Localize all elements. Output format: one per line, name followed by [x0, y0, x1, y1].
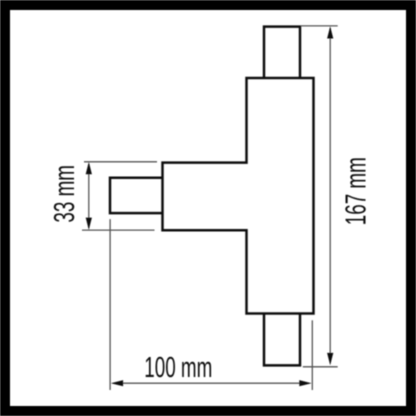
arrow down 167mm	[327, 353, 333, 365]
extension line top of 167mm	[301, 25, 338, 27]
top stub	[264, 27, 300, 79]
dimension line 33mm	[88, 164, 90, 228]
dimension line 100mm	[113, 382, 309, 384]
bottom stub	[264, 313, 300, 366]
svg-text:100 mm: 100 mm	[144, 352, 212, 384]
svg-text:33 mm: 33 mm	[49, 165, 81, 223]
left stub	[110, 178, 164, 213]
arrow up 33mm	[86, 162, 92, 174]
extension line bottom of 33mm	[82, 229, 155, 231]
extension line right of 100mm	[311, 320, 313, 390]
T-connector body + left arm outline	[163, 78, 314, 314]
arrow up 167mm	[327, 26, 333, 38]
arrow left 100mm	[111, 380, 123, 386]
extension line top of 33mm	[84, 161, 157, 163]
extension line left of 100mm	[109, 219, 111, 390]
dimension line 167mm	[329, 28, 331, 363]
arrow down 33mm	[86, 218, 92, 230]
extension line bottom of 167mm	[303, 366, 338, 368]
arrow right 100mm	[299, 380, 311, 386]
svg-text:167 mm: 167 mm	[341, 157, 373, 225]
